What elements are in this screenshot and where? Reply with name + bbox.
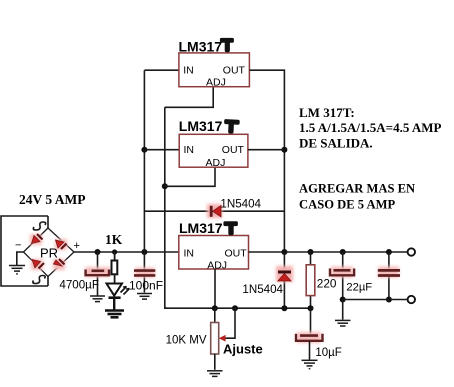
svg-text:ADJ: ADJ: [206, 157, 226, 169]
diode D2 1N5404 (vertical): [276, 266, 293, 282]
ground (22uF): [335, 320, 351, 326]
wire: U2 OUT lead: [248, 149, 285, 151]
svg-text:OUT: OUT: [225, 247, 248, 259]
pot wiper arrow: [219, 335, 226, 342]
svg-text:24V 5 AMP: 24V 5 AMP: [19, 192, 86, 207]
svg-text:LM 317T:: LM 317T:: [299, 105, 355, 120]
node R220 bottom join: [308, 305, 314, 311]
op-amp-box regulator U1 LM317: [179, 53, 250, 89]
svg-text:DE SALIDA.: DE SALIDA.: [299, 136, 373, 151]
output terminal plus: [408, 248, 415, 255]
U1 package icon: [220, 38, 234, 52]
op-amp-box regulator U3 LM317: [179, 236, 249, 272]
wire: D2 leads: [283, 252, 285, 308]
wire: 4700uF leads: [97, 252, 99, 296]
ground (LED, thick): [105, 311, 124, 318]
wire: pot wiper: [224, 308, 235, 338]
LED indicator: [107, 284, 130, 298]
output terminal minus: [408, 296, 415, 303]
wire: U1 ADJ lead: [165, 87, 213, 108]
node U2 OUT join: [281, 147, 287, 153]
svg-text:10K MV: 10K MV: [166, 335, 207, 347]
bridge diode D-lower-left: [31, 259, 44, 270]
node at 100nF tap: [141, 249, 147, 255]
node output cap bottom: [386, 297, 392, 303]
resistor R220: [306, 265, 315, 296]
svg-text:LM317: LM317: [179, 39, 223, 55]
wire: 1K top lead: [114, 252, 116, 261]
capacitor output: [378, 267, 400, 278]
wire: OUT bus to terminal: [249, 251, 409, 253]
wire: output filter cap leads: [388, 252, 390, 300]
svg-text:OUT: OUT: [222, 144, 245, 156]
wire: U2 IN lead: [144, 149, 179, 151]
capacitor 100nF: [134, 268, 155, 278]
svg-text:IN: IN: [184, 144, 195, 156]
wire: U2 ADJ lead: [165, 167, 215, 186]
svg-text:+: +: [74, 240, 80, 252]
ground (100nF): [137, 294, 152, 300]
bridge diode D-upper-left: [30, 234, 43, 245]
wire: U1 IN lead: [144, 69, 179, 71]
svg-text:LM317: LM317: [179, 220, 223, 236]
svg-text:220: 220: [317, 277, 337, 291]
svg-text:100nF: 100nF: [129, 279, 163, 293]
capacitor 22uF: [330, 267, 354, 278]
wire: 10uF lead: [310, 308, 312, 334]
wire: bottom ADJ bus: [165, 307, 311, 309]
wire: 1K bottom lead: [114, 274, 116, 283]
svg-text:Ajuste: Ajuste: [223, 342, 263, 357]
node U2 IN join: [141, 147, 147, 153]
wire: OUT rail vertical x=284.4: [249, 70, 284, 252]
svg-text:1.5 A/1.5A/1.5A=4.5 AMP: 1.5 A/1.5A/1.5A=4.5 AMP: [299, 120, 442, 135]
wire: bridge minus to ground: [17, 252, 24, 265]
svg-text:IN: IN: [183, 65, 194, 77]
node wiper join: [232, 305, 238, 311]
wire: U3 ADJ lead: [214, 269, 216, 308]
ground (bridge minus): [9, 266, 25, 274]
bridge diode D-lower-right: [53, 259, 65, 270]
U2 package icon: [224, 119, 240, 134]
bridge rectifier PR diamond: [24, 228, 75, 277]
capacitor 10uF: [296, 332, 323, 343]
wire: 100nF leads: [143, 252, 145, 293]
svg-text:CASO DE 5 AMP: CASO DE 5 AMP: [299, 198, 396, 212]
wire: R220 leads: [310, 252, 312, 308]
wire: negative rail: [343, 299, 408, 301]
svg-text:AGREGAR MAS EN: AGREGAR MAS EN: [299, 182, 415, 196]
op-amp-box regulator U2 LM317: [179, 134, 248, 169]
wire: main positive rail: [74, 251, 179, 253]
ground (10uF): [302, 360, 318, 368]
node OUT rail joins: [281, 249, 287, 255]
svg-text:ADJ: ADJ: [207, 259, 227, 271]
node at 4700uF tap: [95, 249, 101, 255]
svg-text:IN: IN: [184, 247, 195, 259]
svg-text:ADJ: ADJ: [206, 77, 226, 89]
svg-text:PR: PR: [40, 246, 58, 261]
AC squiggle bottom: [33, 276, 45, 284]
svg-text:−: −: [15, 240, 21, 252]
svg-text:1K: 1K: [105, 232, 123, 247]
svg-text:1N5404: 1N5404: [220, 198, 261, 211]
wire: IN rail (vertical, x=144.4): [143, 70, 145, 252]
wire: 22uF ground lead: [342, 300, 344, 320]
transformer secondary box: [1, 216, 48, 286]
capacitor 4700uF: [85, 267, 110, 277]
svg-text:1N5404: 1N5404: [242, 283, 283, 296]
wire: pot top lead: [214, 308, 216, 322]
wire: ADJ rail (vertical, x=164.8): [165, 107, 167, 308]
svg-text:LM317: LM317: [179, 118, 223, 134]
node D2 bottom join: [281, 305, 287, 311]
svg-text:22µF: 22µF: [346, 282, 372, 294]
ground (pot): [207, 371, 223, 377]
node pot top join: [212, 305, 218, 311]
bridge diode D-upper-right: [55, 239, 67, 250]
wire: LED to ground: [113, 298, 115, 310]
ground (4700uF): [90, 296, 105, 302]
node at 1K tap: [112, 249, 117, 254]
node U2 ADJ join: [162, 183, 168, 189]
wire: 10uF ground lead: [309, 341, 311, 360]
svg-text:4700µF: 4700µF: [59, 279, 99, 292]
node 22uF bottom: [340, 297, 346, 303]
wire: pot bottom lead: [214, 354, 216, 370]
diode D1 1N5404 (horizontal): [207, 204, 222, 218]
wire: C 22uF leads: [342, 252, 344, 300]
potentiometer 10K body: [211, 323, 219, 355]
AC squiggle top: [33, 222, 45, 230]
U3 package icon: [223, 221, 238, 235]
svg-text:10µF: 10µF: [315, 347, 341, 359]
wire: protection diode row: [144, 210, 284, 212]
svg-text:OUT: OUT: [223, 65, 246, 77]
resistor 1K: [112, 261, 118, 275]
